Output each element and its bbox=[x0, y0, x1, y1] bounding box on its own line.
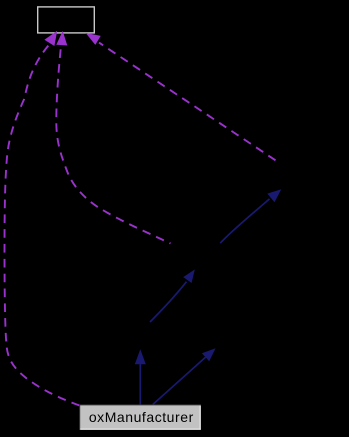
svg-text:oxManufacturer: oxManufacturer bbox=[89, 409, 194, 425]
